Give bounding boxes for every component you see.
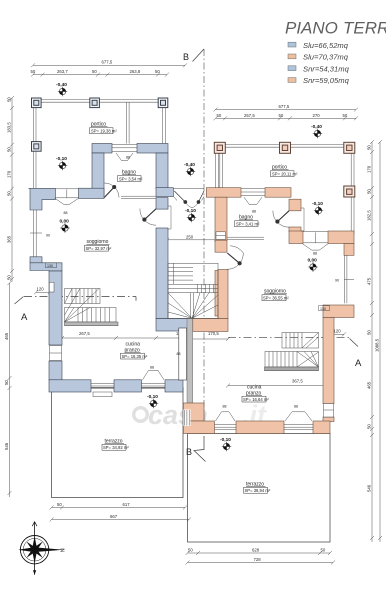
svg-text:-0,40: -0,40 [311,124,322,130]
svg-text:88: 88 [313,252,317,256]
svg-text:628: 628 [252,547,260,552]
svg-text:267,5: 267,5 [79,331,90,336]
svg-text:546: 546 [367,484,372,492]
svg-text:50: 50 [188,547,193,552]
svg-text:50: 50 [367,145,372,150]
svg-text:SP= 3,54 m²: SP= 3,54 m² [119,176,143,181]
svg-text:546: 546 [4,442,9,450]
svg-text:N: N [61,548,67,552]
svg-text:SP= 32,97 m²: SP= 32,97 m² [86,246,112,251]
svg-text:Snr=54,31mq: Snr=54,31mq [303,64,350,73]
svg-text:SP= 34,92 m²: SP= 34,92 m² [103,445,129,450]
svg-text:50: 50 [367,424,372,429]
svg-text:465: 465 [367,381,372,389]
svg-text:1088,5: 1088,5 [375,338,380,352]
svg-text:50: 50 [155,69,160,74]
svg-text:B: B [186,447,192,457]
svg-text:50: 50 [31,69,36,74]
svg-text:A: A [21,312,28,323]
svg-text:88: 88 [177,352,181,356]
svg-text:-0,40: -0,40 [184,162,195,168]
svg-text:667: 667 [110,514,118,519]
svg-text:728: 728 [254,557,262,562]
svg-text:50: 50 [92,69,97,74]
svg-text:170,5: 170,5 [208,331,219,336]
svg-text:270: 270 [313,113,321,118]
svg-text:263,7: 263,7 [57,69,68,74]
svg-text:50: 50 [321,547,326,552]
svg-text:50: 50 [343,113,348,118]
svg-text:-0,10: -0,10 [312,201,323,207]
svg-text:SP= 20,11 m²: SP= 20,11 m² [272,172,298,177]
svg-text:0,00: 0,00 [60,219,70,225]
svg-text:Slu=70,37mq: Slu=70,37mq [303,53,349,62]
svg-text:50: 50 [279,113,284,118]
svg-text:617: 617 [123,502,131,507]
svg-text:677,5: 677,5 [279,104,290,109]
svg-text:250: 250 [186,234,194,239]
svg-text:-0,40: -0,40 [56,82,67,88]
svg-text:50: 50 [7,147,12,152]
svg-text:-0,10: -0,10 [56,156,67,162]
svg-text:PIANO: PIANO [285,19,338,38]
svg-text:88: 88 [223,405,227,409]
svg-text:367,5: 367,5 [292,379,303,384]
svg-text:88: 88 [294,405,298,409]
svg-text:-0,10: -0,10 [220,437,231,443]
svg-text:Slu=66,52mq: Slu=66,52mq [303,41,349,50]
svg-text:A: A [355,358,362,369]
svg-text:B: B [183,52,189,62]
svg-text:365: 365 [7,235,12,243]
svg-text:0,00: 0,00 [308,258,318,264]
svg-text:170: 170 [367,165,372,173]
svg-text:SP= 19,38 m²: SP= 19,38 m² [91,129,117,134]
svg-text:TERRA: TERRA [343,19,386,38]
svg-text:50: 50 [4,380,9,385]
svg-text:50: 50 [7,275,12,280]
svg-text:90: 90 [335,278,339,282]
svg-text:SP= 3,41 m²: SP= 3,41 m² [236,222,260,227]
svg-text:88: 88 [126,156,130,160]
svg-text:88: 88 [252,210,256,214]
svg-text:50: 50 [7,191,12,196]
svg-text:170: 170 [7,170,12,178]
svg-text:130: 130 [320,307,326,311]
svg-text:SP= 38,94 m²: SP= 38,94 m² [245,488,271,493]
svg-text:SP= 16,64 m²: SP= 16,64 m² [243,397,269,402]
svg-text:183,5: 183,5 [7,122,12,133]
svg-text:475: 475 [367,277,372,285]
svg-text:SP= 16,35 m²: SP= 16,35 m² [122,354,148,359]
svg-text:120: 120 [37,287,45,292]
svg-text:677,5: 677,5 [102,60,113,65]
svg-text:-0,10: -0,10 [185,208,196,214]
svg-text:-0,10: -0,10 [147,394,158,400]
svg-text:130: 130 [47,264,53,268]
svg-text:50: 50 [367,189,372,194]
svg-text:257,5: 257,5 [244,113,255,118]
svg-text:Snr=59,05mq: Snr=59,05mq [303,76,350,85]
svg-text:182,5: 182,5 [367,210,372,221]
svg-text:88: 88 [64,211,68,215]
svg-text:50: 50 [57,502,62,507]
svg-text:50: 50 [217,113,222,118]
svg-text:50: 50 [7,97,12,102]
svg-text:50: 50 [367,330,372,335]
svg-text:263,8: 263,8 [130,69,141,74]
svg-text:90: 90 [46,234,50,238]
svg-text:465: 465 [4,332,9,340]
svg-text:SP= 36,55 m²: SP= 36,55 m² [263,296,289,301]
svg-text:120: 120 [334,329,342,334]
svg-text:88: 88 [150,366,154,370]
